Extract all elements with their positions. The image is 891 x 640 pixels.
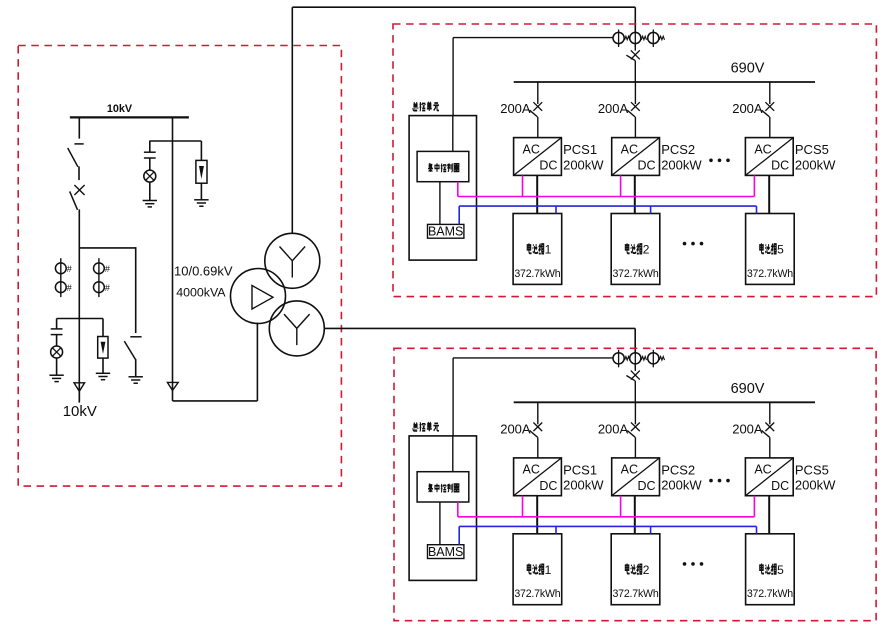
dots: more battery packs 2 bbox=[683, 562, 704, 566]
svg-text:10kV: 10kV bbox=[107, 103, 133, 115]
blue comm bus BAMS-batteries unit 1 bbox=[459, 206, 756, 224]
wire: primary corner to delta winding bbox=[173, 323, 258, 401]
690V busbar unit 2 bbox=[514, 401, 815, 403]
dots: more PCS units 2 bbox=[709, 479, 730, 483]
10kV busbar bbox=[70, 116, 189, 118]
dashed enclosure: 10kV switchgear cabinet bbox=[18, 46, 341, 487]
svg-text:DC: DC bbox=[771, 479, 789, 493]
earthing switch blade bbox=[124, 341, 135, 359]
BAMS box unit 2 bbox=[428, 545, 464, 559]
svg-text:1: 1 bbox=[545, 563, 552, 577]
ground: upper arrester bbox=[194, 200, 208, 206]
master control cabinet box unit 2 bbox=[409, 436, 476, 581]
converter PCS2 (AC/DC) unit 2 bbox=[612, 458, 660, 496]
breaker QF1 blade bbox=[68, 148, 78, 167]
wire: DC link PCS2 to battery 2 unit 1 bbox=[634, 175, 636, 213]
svg-text:10kV: 10kV bbox=[63, 403, 97, 420]
breaker 200A feeder 5 unit 1 bbox=[762, 82, 775, 138]
svg-text:#: # bbox=[67, 283, 72, 293]
svg-text:DC: DC bbox=[637, 159, 655, 173]
label 200A feeder 5 unit 1 bbox=[732, 101, 763, 116]
wire: comm line controller to CT unit 1 bbox=[453, 38, 613, 116]
wire: lower PT/arrester branch bbox=[57, 318, 103, 320]
label master-control-unit 1 bbox=[413, 102, 439, 111]
svg-text:200A: 200A bbox=[500, 101, 531, 116]
centralized controller box unit 2 bbox=[417, 472, 469, 502]
svg-text:372.7kWh: 372.7kWh bbox=[747, 588, 793, 600]
battery pack 5 unit 1 bbox=[746, 214, 795, 285]
transformer T1 delta winding bbox=[231, 269, 286, 324]
label PCS1 rating unit 1 bbox=[563, 142, 604, 172]
svg-text:690V: 690V bbox=[731, 381, 765, 397]
wire: drop into centralized controller unit 2 bbox=[452, 436, 454, 472]
svg-text:200A: 200A bbox=[598, 101, 629, 116]
wire: transformer primary drop bbox=[172, 117, 174, 401]
wire: DC link PCS1 to battery 1 unit 1 bbox=[536, 175, 538, 213]
svg-text:2: 2 bbox=[643, 243, 650, 257]
blue comm bus BAMS-batteries unit 2 bbox=[459, 526, 756, 544]
svg-text:200kW: 200kW bbox=[563, 478, 604, 493]
svg-text:AC: AC bbox=[621, 142, 638, 156]
label PCS5 rating unit 2 bbox=[795, 463, 836, 493]
centralized controller box unit 1 bbox=[417, 151, 469, 181]
label transformer rating bbox=[174, 264, 233, 300]
converter PCS1 (AC/DC) unit 1 bbox=[514, 138, 562, 176]
svg-text:372.7kWh: 372.7kWh bbox=[514, 268, 560, 280]
svg-text:PCS1: PCS1 bbox=[563, 463, 597, 478]
svg-text:PCS5: PCS5 bbox=[795, 463, 829, 478]
capacitor: lower voltage indicator coupling bbox=[51, 319, 63, 347]
wire: comm line controller to CT unit 2 bbox=[453, 358, 613, 436]
converter PCS1 (AC/DC) unit 2 bbox=[514, 458, 562, 496]
svg-text:AC: AC bbox=[754, 142, 771, 156]
wire: DC link PCS2 to battery 2 unit 2 bbox=[634, 496, 636, 534]
svg-text:690V: 690V bbox=[731, 61, 765, 77]
BAMS box unit 1 bbox=[428, 224, 464, 238]
svg-text:DC: DC bbox=[637, 479, 655, 493]
CT group 1 (current transformers, left column) bbox=[55, 258, 71, 297]
svg-text:PCS2: PCS2 bbox=[661, 142, 695, 157]
svg-text:372.7kWh: 372.7kWh bbox=[612, 268, 658, 280]
dashed enclosure: ESS container 2 bbox=[394, 348, 876, 620]
label 200A feeder 2 unit 1 bbox=[598, 101, 629, 116]
svg-text:PCS5: PCS5 bbox=[795, 142, 829, 157]
label PCS2 rating unit 2 bbox=[661, 463, 702, 493]
converter PCS5 (AC/DC) unit 1 bbox=[745, 138, 793, 176]
wire: bus drop to breaker QF1 bbox=[78, 117, 80, 138]
svg-text:AC: AC bbox=[523, 142, 540, 156]
disconnect blade 2 bbox=[70, 191, 78, 209]
magenta comm bus controller-PCS unit 2 bbox=[458, 496, 755, 517]
battery pack 5 unit 2 bbox=[746, 534, 795, 605]
wire: wye1 riser to ESS unit 1 bbox=[292, 7, 635, 233]
battery pack 1 unit 1 bbox=[513, 214, 562, 285]
label 690V bus unit 2 bbox=[731, 381, 765, 397]
battery pack 1 unit 2 bbox=[513, 534, 562, 605]
wire: branch to earthing switch bbox=[79, 247, 135, 333]
svg-text:1: 1 bbox=[545, 243, 552, 257]
breaker 200A feeder 1 unit 2 bbox=[530, 402, 543, 458]
label 200A feeder 1 unit 2 bbox=[500, 422, 531, 437]
transformer T1 wye winding 2 (lower) bbox=[269, 301, 324, 356]
wire: wye2 run to ESS unit 2 bbox=[324, 328, 635, 353]
lamp: lower charged-indicator bbox=[51, 346, 63, 375]
wire: controller to BAMS unit 2 bbox=[439, 502, 441, 545]
svg-text:200kW: 200kW bbox=[661, 157, 702, 172]
label 10kV bus bbox=[107, 103, 133, 115]
dots: more PCS units 1 bbox=[709, 159, 730, 163]
outgoing feeder arrow 10kV bbox=[74, 383, 85, 403]
wire: drop into centralized controller unit 1 bbox=[452, 116, 454, 152]
battery pack 2 unit 1 bbox=[611, 214, 660, 285]
svg-text:AC: AC bbox=[621, 463, 638, 477]
svg-text:PCS1: PCS1 bbox=[563, 142, 597, 157]
CT metering set unit 1 bbox=[613, 30, 664, 48]
surge arrester F2 (lower) bbox=[98, 319, 108, 374]
CT metering set unit 2 bbox=[613, 350, 664, 368]
label PCS1 rating unit 2 bbox=[563, 463, 604, 493]
wire: main 10kV feeder vertical bbox=[78, 209, 80, 401]
dots: more battery packs 1 bbox=[683, 242, 704, 246]
svg-text:200A: 200A bbox=[732, 101, 763, 116]
converter PCS5 (AC/DC) unit 2 bbox=[745, 458, 793, 496]
battery pack 2 unit 2 bbox=[611, 534, 660, 605]
svg-text:5: 5 bbox=[777, 243, 784, 257]
transformer T1 wye winding 1 (upper) bbox=[265, 233, 320, 288]
svg-text:200kW: 200kW bbox=[563, 157, 604, 172]
earthing switch contact bar bbox=[130, 336, 141, 338]
breaker: ESS 2 incoming bbox=[626, 364, 639, 402]
breaker 200A feeder 5 unit 2 bbox=[762, 402, 775, 458]
svg-text:2: 2 bbox=[643, 563, 650, 577]
capacitor: upper voltage indicator coupling bbox=[144, 141, 156, 170]
svg-text:PCS2: PCS2 bbox=[661, 463, 695, 478]
wire: controller to BAMS unit 1 bbox=[439, 182, 441, 225]
breaker QF1 lower contact (x) bbox=[74, 185, 84, 195]
converter PCS2 (AC/DC) unit 1 bbox=[612, 138, 660, 176]
svg-text:AC: AC bbox=[754, 463, 771, 477]
label 200A feeder 1 unit 1 bbox=[500, 101, 531, 116]
svg-text:200A: 200A bbox=[598, 422, 629, 437]
wire: DC link PCS5 to battery 5 unit 1 bbox=[768, 175, 770, 213]
svg-text:#: # bbox=[67, 264, 72, 274]
breaker: ESS 1 incoming bbox=[626, 44, 639, 82]
ground: lower indicator bbox=[49, 375, 63, 381]
label 10kV outgoing bbox=[63, 403, 97, 420]
svg-text:200kW: 200kW bbox=[795, 478, 836, 493]
wire: QF1 middle segment bbox=[78, 166, 80, 180]
svg-text:BAMS: BAMS bbox=[428, 545, 463, 559]
svg-text:372.7kWh: 372.7kWh bbox=[747, 268, 793, 280]
svg-text:5: 5 bbox=[777, 563, 784, 577]
svg-text:DC: DC bbox=[539, 479, 557, 493]
lamp: upper charged-indicator bbox=[144, 170, 156, 200]
svg-text:372.7kWh: 372.7kWh bbox=[612, 588, 658, 600]
breaker 200A feeder 1 unit 1 bbox=[530, 82, 543, 138]
label 200A feeder 5 unit 2 bbox=[732, 422, 763, 437]
label 690V bus unit 1 bbox=[731, 61, 765, 77]
CT group 2 (current transformers, right column) bbox=[94, 258, 110, 297]
breaker QF1 upper drawout contact bbox=[74, 143, 83, 145]
master control cabinet box unit 1 bbox=[409, 116, 476, 261]
wire: DC link PCS5 to battery 5 unit 2 bbox=[768, 496, 770, 534]
ground: lower arrester bbox=[96, 373, 110, 379]
svg-text:BAMS: BAMS bbox=[428, 225, 463, 239]
dashed enclosure: ESS container 1 bbox=[393, 24, 876, 297]
svg-text:DC: DC bbox=[771, 159, 789, 173]
svg-text:200kW: 200kW bbox=[661, 478, 702, 493]
label PCS5 rating unit 1 bbox=[795, 142, 836, 172]
breaker 200A feeder 2 unit 2 bbox=[627, 402, 640, 458]
690V busbar unit 1 bbox=[514, 81, 815, 83]
svg-text:4000kVA: 4000kVA bbox=[176, 286, 226, 300]
svg-text:200A: 200A bbox=[732, 422, 763, 437]
ground: upper indicator bbox=[143, 201, 157, 207]
svg-text:DC: DC bbox=[539, 159, 557, 173]
label 200A feeder 2 unit 2 bbox=[598, 422, 629, 437]
transformer T1 arrow into corner bbox=[167, 382, 178, 390]
svg-text:200A: 200A bbox=[500, 422, 531, 437]
surge arrester F1 (upper) bbox=[196, 141, 207, 200]
ground: earthing switch bbox=[129, 377, 143, 383]
svg-text:#: # bbox=[105, 283, 110, 293]
svg-text:AC: AC bbox=[523, 463, 540, 477]
svg-text:10/0.69kV: 10/0.69kV bbox=[174, 264, 233, 279]
svg-text:200kW: 200kW bbox=[795, 157, 836, 172]
svg-text:#: # bbox=[105, 264, 110, 274]
magenta comm bus controller-PCS unit 1 bbox=[458, 175, 755, 196]
label PCS2 rating unit 1 bbox=[661, 142, 702, 172]
breaker 200A feeder 2 unit 1 bbox=[627, 82, 640, 138]
label master-control-unit 2 bbox=[413, 422, 439, 431]
wire: upper PT/arrester branch bbox=[149, 140, 201, 142]
wire: earthing switch to ground bbox=[135, 359, 137, 377]
wire: DC link PCS1 to battery 1 unit 2 bbox=[536, 496, 538, 534]
svg-text:372.7kWh: 372.7kWh bbox=[514, 588, 560, 600]
